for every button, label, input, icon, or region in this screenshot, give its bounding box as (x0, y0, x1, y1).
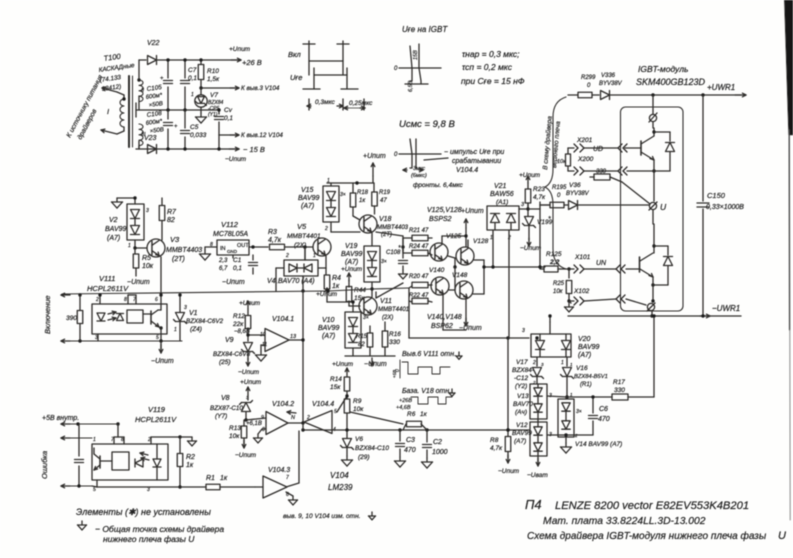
svg-text:Uғе на IGBT: Uғе на IGBT (402, 25, 448, 34)
svg-text:V20: V20 (578, 336, 591, 343)
svg-text:+: + (174, 124, 178, 130)
svg-text:V21: V21 (494, 183, 507, 190)
svg-text:1,5к: 1,5к (207, 76, 220, 83)
svg-text:2,3: 2,3 (218, 258, 228, 264)
svg-text:1: 1 (313, 253, 316, 259)
svg-text:IN: IN (220, 246, 226, 252)
svg-text:(Y2): (Y2) (515, 383, 527, 390)
svg-text:V22: V22 (147, 40, 160, 47)
svg-text:(2T): (2T) (172, 256, 185, 263)
svg-text:(Z4): (Z4) (190, 326, 202, 333)
svg-text:1к: 1к (186, 462, 194, 469)
svg-text:10к: 10к (553, 289, 564, 295)
svg-text:R23: R23 (533, 186, 545, 193)
svg-text:2: 2 (285, 253, 289, 259)
svg-text:−Uпит: −Uпит (459, 325, 482, 332)
svg-text:К выв.3 V104: К выв.3 V104 (241, 85, 280, 92)
svg-text:(6мкс): (6мкс) (411, 173, 427, 179)
svg-text:при Cғе = 15 нФ: при Cғе = 15 нФ (461, 76, 525, 86)
svg-text:V17: V17 (516, 359, 528, 366)
svg-text:(2X): (2X) (382, 315, 393, 321)
svg-text:GND: GND (227, 249, 238, 254)
svg-text:Cᴠ: Cᴠ (224, 107, 233, 114)
svg-text:MC78L05A: MC78L05A (213, 231, 248, 238)
svg-text:Мат. плата 33.8224LL.3D-13.00: Мат. плата 33.8224LL.3D-13.002 (543, 516, 706, 527)
svg-text:R6: R6 (407, 411, 416, 418)
svg-text:10к: 10к (229, 433, 240, 440)
svg-text:+26 В: +26 В (242, 58, 262, 67)
svg-text:(A7): (A7) (345, 259, 358, 266)
svg-text:8: 8 (124, 297, 127, 303)
svg-text:II: II (141, 88, 145, 94)
svg-text:2: 2 (306, 415, 310, 421)
svg-text:82: 82 (167, 217, 175, 224)
svg-text:Выв.6 V111 отн.: Выв.6 V111 отн. (402, 351, 456, 358)
svg-text:(A7): (A7) (322, 333, 335, 340)
svg-text:390: 390 (66, 315, 77, 322)
svg-text:V125,V128: V125,V128 (427, 207, 462, 214)
svg-text:15к: 15к (354, 295, 365, 302)
svg-text:BAV99: BAV99 (512, 430, 532, 437)
svg-text:−Uпит: −Uпит (364, 361, 387, 368)
svg-text:C2: C2 (433, 439, 442, 446)
svg-text:BZX84-C6V8: BZX84-C6V8 (213, 351, 251, 358)
svg-text:V148: V148 (452, 272, 468, 279)
svg-text:10к: 10к (142, 263, 154, 270)
svg-text:V13: V13 (517, 393, 529, 400)
svg-text:BZX84-B5V1: BZX84-B5V1 (574, 374, 608, 380)
svg-text:LENZE 8200 vector E82EV553K4B2: LENZE 8200 vector E82EV553K4B201 (555, 500, 749, 512)
svg-text:MMBT4403: MMBT4403 (377, 225, 409, 231)
svg-text:V111: V111 (99, 274, 115, 283)
svg-text:SKM400GB123D: SKM400GB123D (636, 77, 706, 87)
svg-text:База. V18 отн.: База. V18 отн. (402, 388, 451, 395)
svg-text:6,5В: 6,5В (408, 80, 414, 92)
svg-text:I: I (107, 107, 109, 116)
svg-text:+Uпит: +Uпит (332, 361, 354, 368)
svg-text:(A1): (A1) (496, 199, 508, 206)
svg-text:V112: V112 (221, 220, 239, 229)
svg-text:− Общая точка схемы драйве: − Общая точка схемы драйвера (95, 524, 224, 534)
svg-text:+6,1В: +6,1В (246, 421, 262, 427)
svg-text:10к: 10к (353, 406, 364, 413)
svg-text:(R1): (R1) (580, 382, 592, 388)
svg-text:V19: V19 (345, 243, 358, 250)
svg-text:V2: V2 (109, 217, 118, 224)
svg-text:470: 470 (598, 416, 610, 423)
svg-text:R13: R13 (229, 425, 241, 432)
svg-text:R195: R195 (552, 185, 567, 191)
svg-text:0,1: 0,1 (188, 75, 197, 82)
svg-text:IGBT-модуль: IGBT-модуль (638, 64, 688, 74)
svg-text:−UWR1: −UWR1 (712, 304, 740, 313)
svg-text:V9: V9 (225, 337, 234, 344)
svg-text:0,3мкс: 0,3мкс (315, 99, 335, 106)
svg-text:BAV70 (A4): BAV70 (A4) (278, 278, 315, 285)
svg-text:13: 13 (290, 334, 297, 340)
svg-text:+Uпит: +Uпит (461, 208, 484, 215)
svg-text:+5В внутр.: +5В внутр. (42, 415, 79, 422)
svg-text:−Uпит: −Uпит (235, 452, 257, 459)
svg-text:R125: R125 (546, 251, 562, 258)
svg-text:+Uпит: +Uпит (519, 172, 541, 179)
svg-text:V11: V11 (380, 298, 392, 305)
svg-text:-C12: -C12 (514, 375, 528, 382)
svg-text:R2: R2 (186, 454, 195, 461)
svg-text:V104.2: V104.2 (272, 401, 294, 408)
svg-text:330: 330 (596, 169, 607, 175)
svg-text:V7: V7 (210, 92, 218, 99)
svg-text:V119: V119 (148, 405, 166, 414)
svg-text:3: 3 (522, 328, 525, 334)
svg-text:V336: V336 (601, 73, 616, 79)
svg-text:V12: V12 (516, 422, 528, 429)
svg-text:2: 2 (95, 297, 99, 303)
svg-text:нижнего плеча фазы U: нижнего плеча фазы U (103, 534, 195, 544)
svg-text:U: U (660, 202, 667, 212)
svg-text:−Uпит: −Uпит (225, 156, 247, 163)
svg-text:(Aч): (Aч) (515, 409, 527, 416)
svg-text:BAW56: BAW56 (490, 191, 514, 198)
svg-text:R25: R25 (553, 281, 565, 287)
svg-text:6,7: 6,7 (219, 266, 228, 272)
svg-text:(A7): (A7) (578, 352, 591, 359)
svg-text:UN: UN (596, 260, 607, 267)
svg-text:V4: V4 (267, 278, 276, 285)
svg-text:−Uпит: −Uпит (151, 358, 174, 365)
svg-text:*: * (548, 216, 551, 223)
svg-text:фронты. 6,4мкс: фронты. 6,4мкс (413, 182, 464, 189)
svg-text:1: 1 (327, 178, 330, 184)
svg-text:Ошибка: Ошибка (40, 451, 49, 479)
svg-text:V18: V18 (379, 216, 392, 223)
svg-text:X101: X101 (574, 254, 591, 261)
svg-text:V8: V8 (221, 395, 230, 402)
svg-text:5: 5 (156, 335, 159, 341)
svg-text:BZX84-C6V2: BZX84-C6V2 (186, 318, 224, 325)
svg-text:BAV99: BAV99 (578, 344, 600, 351)
svg-text:V104: V104 (330, 471, 349, 480)
svg-text:П4: П4 (525, 497, 542, 512)
svg-text:3: 3 (146, 208, 149, 214)
svg-text:R20 47: R20 47 (409, 274, 429, 280)
svg-text:Uғе: Uғе (290, 73, 302, 82)
svg-text:1: 1 (174, 327, 177, 333)
svg-text:C6: C6 (599, 406, 608, 413)
svg-text:3мкс: 3мкс (413, 166, 425, 172)
svg-text:2,2: 2,2 (549, 259, 560, 266)
svg-text:3×: 3× (340, 192, 346, 198)
svg-text:Включение: Включение (43, 295, 52, 334)
svg-text:9: 9 (261, 415, 264, 421)
svg-text:R21 47: R21 47 (409, 228, 429, 234)
svg-text:82: 82 (358, 342, 365, 348)
svg-text:τсп = 0,2 мкс: τсп = 0,2 мкс (462, 62, 513, 72)
svg-text:4,7к: 4,7к (533, 194, 546, 201)
svg-text:2: 2 (324, 226, 328, 232)
svg-text:R16: R16 (389, 331, 401, 338)
svg-text:−Uпит: −Uпит (238, 369, 260, 376)
svg-text:(A7): (A7) (514, 438, 526, 445)
svg-text:R18: R18 (357, 190, 369, 196)
svg-text:BAV99: BAV99 (105, 226, 127, 233)
svg-text:V140: V140 (429, 267, 445, 274)
svg-text:BZX84-C10: BZX84-C10 (355, 445, 389, 452)
svg-text:(A7): (A7) (301, 203, 314, 210)
svg-text:Вкл: Вкл (288, 50, 302, 59)
svg-text:1к: 1к (220, 475, 228, 482)
svg-text:0,1: 0,1 (233, 265, 242, 272)
svg-text:−Uпит: −Uпит (127, 279, 150, 286)
svg-text:V128: V128 (473, 238, 489, 245)
svg-text:V10: V10 (322, 317, 335, 324)
svg-text:1: 1 (561, 360, 564, 366)
svg-text:R1: R1 (206, 475, 215, 482)
svg-text:5: 5 (93, 487, 96, 493)
svg-text:R15: R15 (356, 334, 368, 340)
svg-text:4,7к: 4,7к (490, 445, 503, 452)
svg-text:V104.4: V104.4 (456, 167, 478, 174)
svg-text:V104.1: V104.1 (272, 316, 294, 323)
svg-text:−Uпит: −Uпит (520, 245, 542, 252)
svg-text:3×: 3× (363, 315, 369, 321)
svg-text:LM239: LM239 (328, 483, 353, 492)
svg-text:BSP62: BSP62 (431, 323, 453, 330)
svg-text:R4: R4 (332, 275, 341, 282)
svg-text:MMBT4401: MMBT4401 (287, 233, 321, 240)
svg-text:Элементы (✱) не установлены: Элементы (✱) не установлены (76, 507, 211, 517)
svg-text:+Uпит: +Uпит (363, 153, 386, 160)
svg-text:V3: V3 (170, 235, 180, 244)
svg-text:3: 3 (184, 305, 187, 311)
svg-text:− импульс Uғе при: − импульс Uғе при (444, 149, 504, 156)
svg-text:R7: R7 (167, 209, 177, 216)
svg-text:V36: V36 (569, 182, 581, 189)
svg-text:R9: R9 (353, 398, 362, 405)
svg-text:V104.3: V104.3 (268, 467, 290, 474)
svg-text:7: 7 (286, 475, 289, 481)
svg-text:V104.4: V104.4 (312, 401, 334, 408)
svg-text:0,033: 0,033 (190, 132, 207, 139)
svg-text:R44: R44 (354, 287, 366, 294)
svg-text:R8: R8 (490, 437, 499, 444)
svg-text:1: 1 (128, 243, 131, 249)
svg-text:1: 1 (191, 92, 194, 98)
svg-text:R24 47: R24 47 (409, 244, 429, 250)
svg-text:V140,V148: V140,V148 (427, 314, 462, 321)
svg-text:R5: R5 (142, 255, 151, 262)
svg-text:выв. 9, 10 V104 изм. отн.: выв. 9, 10 V104 изм. отн. (283, 513, 361, 520)
svg-text:C7: C7 (188, 67, 197, 74)
svg-text:BSPS2: BSPS2 (429, 216, 452, 223)
svg-text:1000: 1000 (432, 449, 448, 456)
svg-text:V1: V1 (189, 310, 198, 317)
svg-text:HCPL2611V: HCPL2611V (135, 415, 177, 424)
svg-text:15В: 15В (413, 50, 419, 60)
svg-text:BYV38V: BYV38V (566, 191, 590, 197)
svg-text:MMBT4403: MMBT4403 (166, 247, 202, 254)
svg-text:V14 BAV99 (A7): V14 BAV99 (A7) (575, 441, 622, 448)
svg-text:V5: V5 (297, 222, 307, 231)
svg-text:V15: V15 (301, 187, 314, 194)
svg-text:BAV70: BAV70 (513, 401, 533, 408)
svg-text:47: 47 (380, 198, 387, 204)
svg-text:Схема драйвера IGBT-модуля ниж: Схема драйвера IGBT-модуля нижнего плеча… (527, 530, 767, 542)
svg-text:*: * (398, 245, 401, 252)
svg-text:N: N (291, 415, 295, 421)
svg-text:0,33×1000В: 0,33×1000В (706, 204, 744, 211)
svg-text:C150: C150 (707, 191, 726, 200)
svg-text:+Uпит: +Uпит (341, 266, 363, 273)
svg-text:1к: 1к (332, 283, 340, 290)
svg-text:MMBT4401: MMBT4401 (378, 307, 409, 313)
svg-text:V23: V23 (144, 135, 157, 142)
svg-text:R14: R14 (330, 376, 342, 383)
svg-text:R19: R19 (379, 190, 391, 196)
svg-text:Uсмс = 9,8 В: Uсмс = 9,8 В (399, 119, 455, 130)
svg-text:срабатывании: срабатывании (452, 157, 501, 165)
svg-text:BZX87-C10: BZX87-C10 (210, 405, 243, 412)
svg-text:−Uват: −Uват (527, 472, 548, 479)
svg-text:X201: X201 (576, 137, 593, 144)
svg-text:+Uпит: +Uпит (240, 379, 262, 386)
svg-text:R3: R3 (268, 229, 277, 236)
svg-text:+5В: +5В (392, 370, 397, 378)
svg-text:UD: UD (593, 146, 603, 153)
svg-text:1: 1 (93, 437, 96, 443)
svg-text:22к: 22к (232, 321, 244, 328)
svg-text:−Uпит: −Uпит (222, 279, 245, 286)
svg-text:+UWR1: +UWR1 (707, 83, 735, 92)
svg-text:4,7к: 4,7к (268, 237, 282, 244)
svg-text:τнар = 0,3 мкс;: τнар = 0,3 мкс; (462, 49, 520, 59)
svg-text:− 15 В: − 15 В (243, 145, 265, 154)
svg-text:470: 470 (404, 447, 416, 454)
svg-text:V16: V16 (576, 365, 588, 372)
svg-text:15к: 15к (330, 384, 341, 391)
svg-text:V6: V6 (355, 436, 363, 443)
svg-text:8: 8 (262, 427, 265, 433)
svg-text:BAV99: BAV99 (318, 325, 340, 332)
svg-text:C5: C5 (190, 124, 199, 131)
svg-text:R299: R299 (581, 75, 596, 81)
svg-text:К выв.12 V104: К выв.12 V104 (241, 132, 283, 139)
svg-text:HCPL2611V: HCPL2611V (87, 284, 129, 293)
svg-text:C1: C1 (233, 257, 242, 264)
svg-text:0,1: 0,1 (224, 115, 233, 122)
svg-text:BAV99: BAV99 (341, 251, 363, 258)
svg-text:(29): (29) (358, 454, 370, 461)
svg-text:3×: 3× (381, 259, 387, 265)
svg-text:X102: X102 (573, 288, 590, 295)
svg-text:BAV99: BAV99 (298, 195, 320, 202)
svg-text:U: U (778, 530, 786, 542)
svg-text:(A7): (A7) (107, 235, 120, 242)
svg-text:330: 330 (389, 339, 400, 346)
svg-text:−Uпит: −Uпит (498, 468, 520, 475)
svg-text:R12: R12 (233, 313, 245, 320)
svg-text:C3: C3 (406, 437, 415, 444)
svg-text:6: 6 (155, 297, 158, 303)
svg-text:BYV38V: BYV38V (599, 81, 623, 87)
svg-text:BZX84-: BZX84- (512, 367, 535, 374)
svg-text:1к: 1к (420, 411, 428, 418)
svg-text:3: 3 (147, 487, 150, 493)
svg-text:3×: 3× (576, 409, 582, 415)
svg-text:330: 330 (614, 387, 625, 394)
svg-text:(25): (25) (219, 359, 231, 366)
svg-text:+Uпит: +Uпит (229, 46, 251, 53)
svg-text:OUT: OUT (237, 243, 249, 249)
svg-text:0,25мкс: 0,25мкс (349, 100, 373, 107)
svg-text:R10: R10 (207, 68, 219, 75)
svg-text:2: 2 (532, 360, 536, 366)
svg-text:R17: R17 (613, 379, 625, 386)
svg-text:+26В: +26В (399, 398, 412, 404)
svg-text:(Y7): (Y7) (215, 413, 227, 420)
svg-text:X200: X200 (577, 156, 594, 163)
svg-text:+: + (160, 76, 164, 82)
